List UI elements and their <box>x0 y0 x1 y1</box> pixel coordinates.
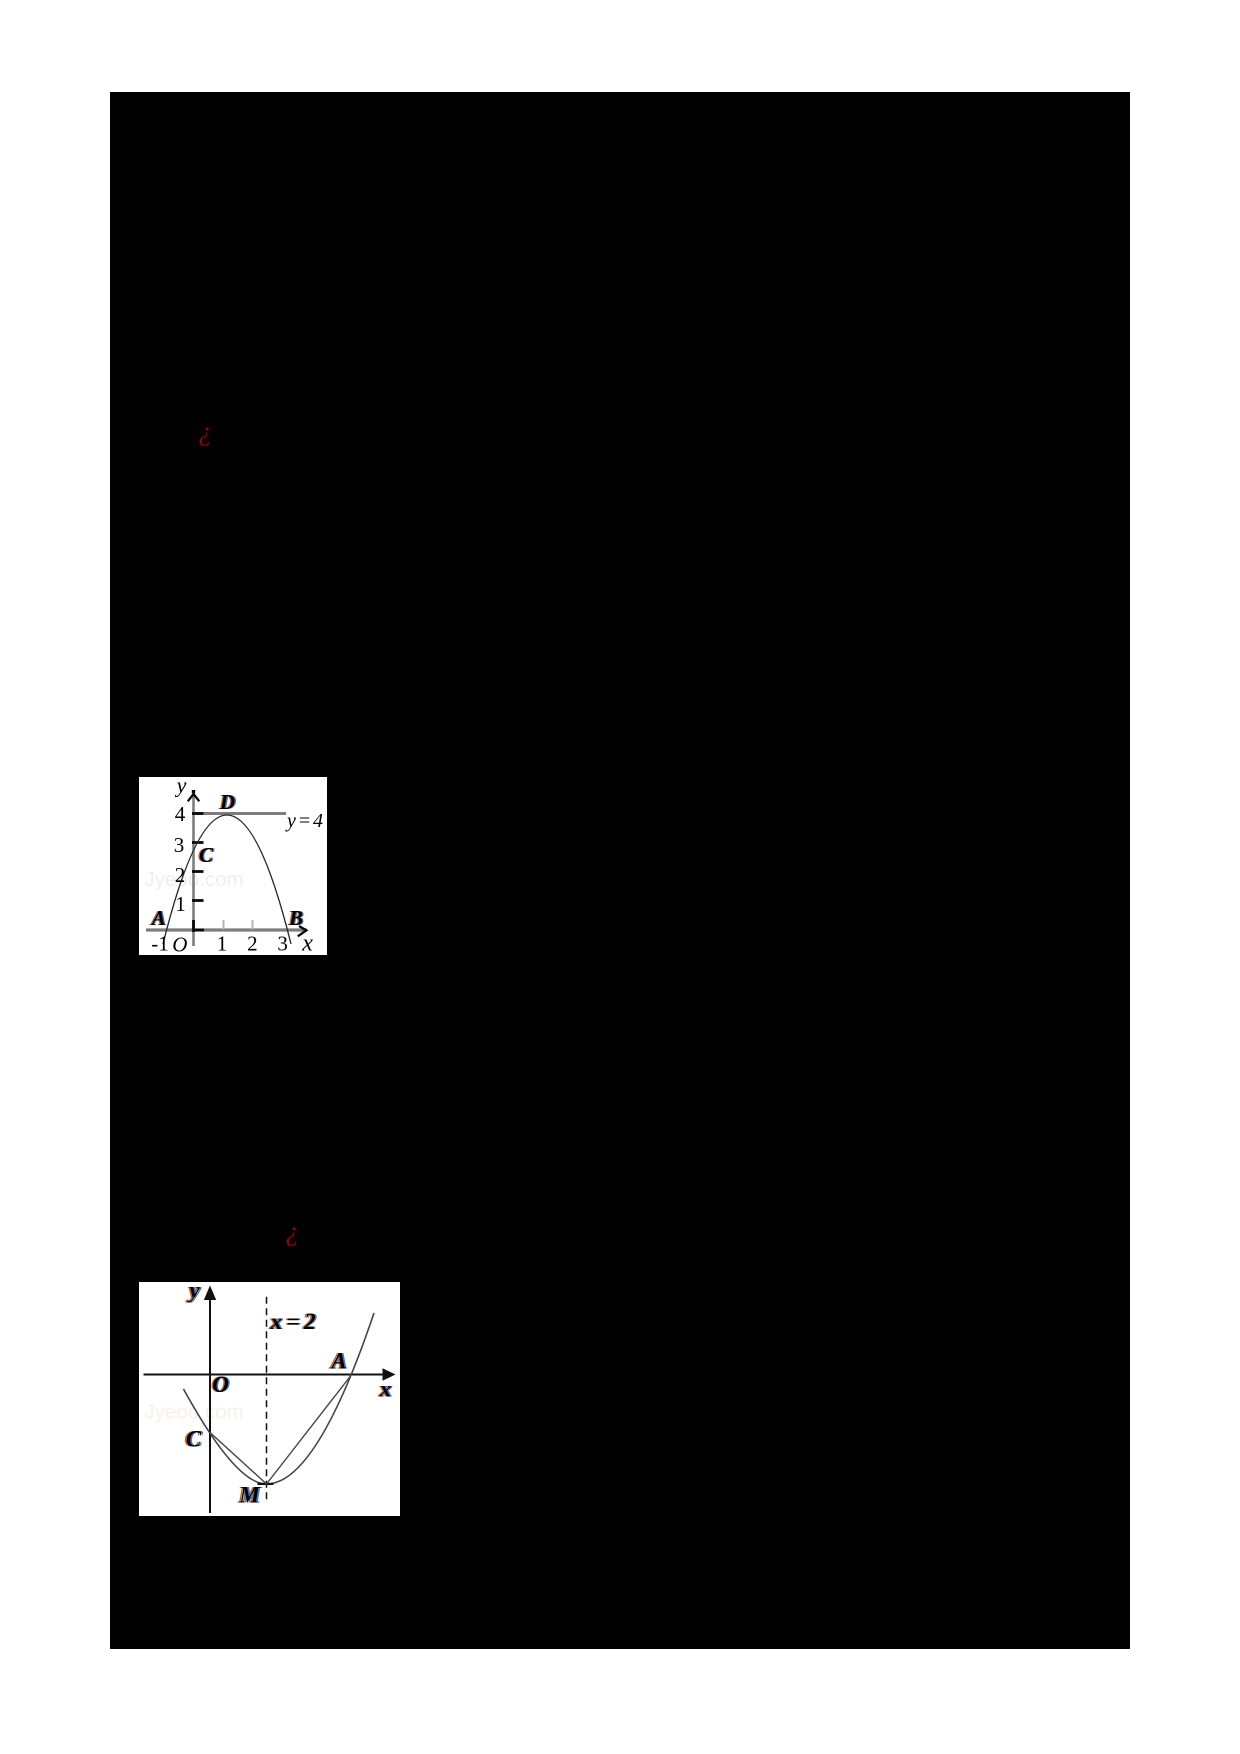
svg-text:A: A <box>329 1349 346 1374</box>
x numbers <box>151 931 313 957</box>
svg-text:3: 3 <box>174 833 185 857</box>
svg-text:3: 3 <box>277 932 288 956</box>
red missing-glyph 1 <box>198 430 212 432</box>
figure 1 panel <box>139 777 327 955</box>
figure 2 panel <box>139 1282 400 1516</box>
svg-text:O: O <box>172 933 187 956</box>
svg-text:-1: -1 <box>151 932 169 956</box>
x-axis arrow <box>298 926 307 936</box>
point labels A B C D with chromatic fringe <box>148 790 304 930</box>
svg-text:D: D <box>219 790 235 814</box>
dashed line x=2 <box>266 1297 268 1504</box>
svg-text:1: 1 <box>217 932 228 956</box>
y-axis arrow <box>188 794 200 801</box>
svg-text:M: M <box>238 1483 261 1508</box>
svg-text:C: C <box>199 843 214 867</box>
svg-text:1: 1 <box>175 892 186 916</box>
chord C-M <box>210 1433 267 1485</box>
y-axis <box>209 1297 211 1513</box>
svg-text:2: 2 <box>247 932 258 956</box>
y tick 1 <box>192 899 204 902</box>
svg-text:B: B <box>288 906 303 930</box>
y axis name <box>175 773 187 798</box>
y arrow <box>204 1286 216 1301</box>
light tick x=2 <box>252 920 254 930</box>
x-axis <box>146 928 307 931</box>
parabola left branch <box>184 1389 267 1484</box>
svg-text:x=2: x=2 <box>270 1309 321 1334</box>
chord M-A <box>267 1375 352 1485</box>
y-axis <box>192 790 195 946</box>
label x=2 <box>268 1309 322 1334</box>
svg-text:Jyeoo.com: Jyeoo.com <box>145 1401 244 1424</box>
svg-text:4: 4 <box>175 802 186 826</box>
light tick x=1 <box>223 920 225 930</box>
black document body <box>110 92 1130 1649</box>
svg-text:y: y <box>186 1282 200 1303</box>
svg-text:x: x <box>301 931 313 956</box>
x arrow <box>383 1368 396 1380</box>
svg-text:y=4: y=4 <box>285 810 325 832</box>
parabola right branch <box>267 1313 375 1484</box>
origin tick vertical <box>192 920 195 932</box>
y tick 2 <box>192 870 204 873</box>
labels <box>184 1278 393 1508</box>
x-axis <box>144 1374 387 1376</box>
svg-text:x: x <box>379 1377 392 1402</box>
parabola <box>163 815 291 944</box>
svg-text:2: 2 <box>175 863 186 887</box>
line y=4 <box>194 812 287 815</box>
y tick 4 <box>192 812 204 815</box>
red missing-glyph 2 <box>285 1230 299 1232</box>
svg-text:A: A <box>150 906 166 930</box>
svg-text:y: y <box>175 777 187 798</box>
svg-text:C: C <box>186 1427 202 1452</box>
y numbers <box>174 802 186 916</box>
svg-text:O: O <box>212 1372 229 1397</box>
vertex mark at M <box>258 1483 274 1485</box>
origin tick horizontal <box>194 929 205 932</box>
y tick 3 <box>192 841 204 844</box>
